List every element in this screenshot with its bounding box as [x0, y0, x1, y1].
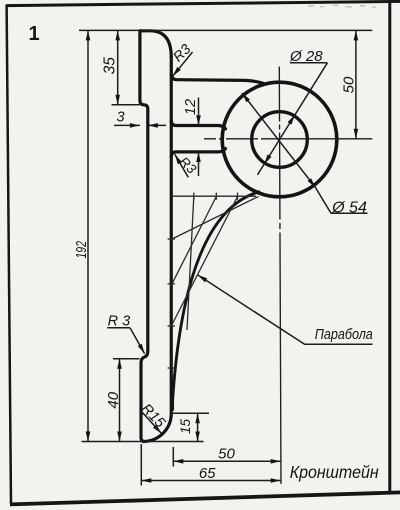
arm bottom edge with R3 fillet: [171, 149, 225, 157]
arrow 15 top: [195, 413, 200, 423]
hub outer circle Ø54: [222, 82, 337, 197]
arrow 192 bottom: [86, 432, 91, 442]
dim line 40: [119, 359, 121, 442]
svg-text:Ø 54: Ø 54: [331, 200, 367, 217]
svg-text:R 3: R 3: [108, 313, 131, 329]
extension line top (y=30): [79, 29, 372, 31]
frame border top: [6, 1, 400, 5]
extension line at recess bottom: [113, 358, 140, 360]
arrow R3 bottom-left: [138, 344, 147, 355]
parabola tangent line 2: [172, 197, 216, 284]
dim line 3 right part: [148, 124, 166, 126]
dim line 35: [117, 30, 119, 104]
arrow 35 top: [115, 30, 120, 40]
svg-text:Ø 28: Ø 28: [289, 48, 323, 65]
division ticks on base line: [193, 193, 195, 200]
diameter line Ø28 with leader: [258, 63, 328, 175]
arrow 35 bottom: [115, 95, 120, 105]
plate top edge and top-right corner: [140, 31, 171, 57]
svg-text:192: 192: [73, 241, 90, 259]
dim line 3 left part: [114, 124, 140, 126]
dim line 15: [197, 413, 199, 441]
web top edge with R3 fillet, tangent to hub: [171, 74, 263, 84]
leader line R3 middle: [175, 154, 189, 177]
arrow Ø54 lower-right: [308, 178, 318, 189]
arrow 50 bottom right: [271, 459, 281, 464]
extension line plate left face for 65: [140, 444, 142, 486]
underline Ø28: [290, 62, 328, 64]
arrow 65 right: [271, 478, 281, 483]
frame border bottom: [10, 492, 400, 504]
leader line R3 bottom-left: [130, 328, 145, 354]
arrow 50 right bottom: [354, 129, 359, 139]
leader line R15: [142, 412, 162, 434]
diameter line Ø54 with leader: [242, 93, 368, 213]
division ticks on plate edge: [168, 238, 175, 240]
extension line bottom (y=441.5): [82, 441, 204, 443]
svg-text:40: 40: [105, 391, 122, 408]
svg-text:12: 12: [183, 99, 199, 115]
dim line 50 bottom: [173, 460, 280, 462]
hub horizontal centerline: [204, 138, 372, 140]
dim line 65 bottom: [141, 480, 280, 482]
svg-text:Кронштейн: Кронштейн: [290, 462, 379, 482]
arrow 12 top: [196, 115, 201, 125]
frame border right: [388, 1, 391, 493]
leader line Парабола: [198, 275, 373, 344]
arrow Ø54 upper-left: [240, 92, 250, 103]
arrow 192 top: [86, 30, 91, 40]
arrow 65 left: [141, 478, 151, 483]
parabola tangent line 3: [171, 197, 237, 327]
arrow Парабола: [196, 273, 207, 282]
svg-text:35: 35: [101, 57, 118, 75]
arrow R3 top: [171, 67, 181, 78]
extension line at R15 start: [171, 412, 210, 414]
arrow 12 bottom: [196, 152, 201, 162]
parabola curve: [173, 192, 259, 410]
svg-text:3: 3: [116, 110, 124, 126]
extension tick at recess top: [112, 104, 140, 106]
scan noise top-right: [308, 5, 376, 8]
svg-text:1: 1: [28, 23, 39, 45]
parabola tangent line 4: [187, 197, 194, 331]
arrow R3 middle: [173, 153, 182, 164]
extension line plate right edge for 50: [172, 447, 174, 467]
svg-text:50: 50: [218, 445, 235, 462]
svg-text:50: 50: [341, 76, 358, 93]
svg-text:Парабола: Парабола: [315, 326, 373, 343]
parabola tangent line 1: [172, 196, 259, 239]
arrow Ø28 lower-left: [262, 154, 271, 165]
dim line 50 right: [355, 30, 357, 138]
construction base line horizontal: [171, 195, 256, 197]
plate left edge with 3mm recess steps, bottom edge and R15 fillet: [140, 31, 171, 442]
arrow Ø28 upper-right: [288, 114, 297, 125]
underline R3 bottom-left: [107, 327, 130, 329]
plate right edge: [170, 57, 173, 414]
arrow 40 bottom: [117, 432, 122, 442]
svg-text:65: 65: [199, 465, 216, 482]
arrow 3 right: [148, 123, 158, 128]
svg-text:15: 15: [178, 419, 193, 435]
dim line 192: [87, 30, 89, 441]
hub inner circle Ø28: [252, 112, 308, 168]
arrow 50 bottom left: [173, 459, 183, 464]
frame border left: [7, 5, 11, 505]
arrow R15: [153, 425, 163, 435]
arrow 40 top: [117, 359, 122, 369]
arrow 3 left: [130, 123, 140, 128]
hub vertical centerline: [279, 67, 281, 485]
leader line R3 top: [173, 52, 193, 76]
arrow 15 bottom: [195, 432, 200, 442]
dim line 12 upper stem: [198, 98, 200, 126]
arrow 50 right top: [354, 30, 359, 40]
dim line 12 lower stem: [198, 152, 200, 176]
arm top edge with R3 fillet: [171, 121, 225, 129]
